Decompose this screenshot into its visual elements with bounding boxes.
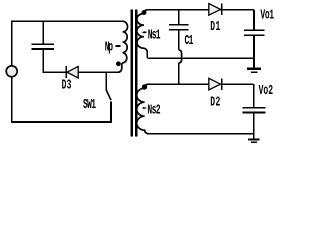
svg-text:SW1: SW1 — [83, 98, 96, 113]
svg-text:D2: D2 — [210, 96, 220, 111]
svg-text:Vo1: Vo1 — [260, 9, 274, 24]
svg-text:Ns1: Ns1 — [148, 29, 161, 44]
svg-text:Ns2: Ns2 — [147, 104, 160, 119]
svg-text:Np: Np — [105, 41, 114, 56]
svg-text:D1: D1 — [210, 20, 220, 35]
svg-text:D3: D3 — [62, 79, 72, 94]
svg-text:Vo2: Vo2 — [259, 84, 274, 99]
svg-text:C1: C1 — [185, 34, 194, 49]
